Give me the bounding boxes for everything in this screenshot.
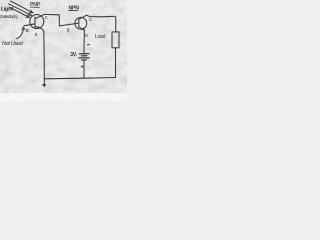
svg-text:B: B bbox=[67, 28, 70, 33]
svg-text:E: E bbox=[85, 33, 88, 38]
svg-text:Load: Load bbox=[95, 34, 106, 40]
wire Q2 emitter down to battery bbox=[83, 31, 85, 53]
svg-text:E: E bbox=[35, 32, 38, 37]
battery BT1 3V plates bbox=[79, 54, 89, 60]
bottom rail wire bbox=[44, 78, 115, 79]
PNP underline bbox=[30, 6, 40, 9]
svg-text:.........: ......... bbox=[100, 88, 110, 92]
battery polarity minus bbox=[87, 44, 90, 46]
Q2 base bar bbox=[78, 19, 80, 27]
Q2 emitter arrow (points outward, NPN) bbox=[82, 28, 85, 30]
arrow from "Not Used" to Q1 base bbox=[16, 28, 23, 39]
light rays into Q1 (light detector arrows) bbox=[9, 1, 34, 18]
svg-text:B: B bbox=[26, 28, 29, 33]
load resistor box bbox=[112, 32, 119, 48]
Q1 emitter lead bbox=[35, 26, 44, 31]
wire Q1 emitter down (left vertical) bbox=[43, 32, 46, 85]
Q1 base lead bbox=[24, 24, 35, 26]
svg-text:Light: Light bbox=[1, 7, 15, 13]
paper background bbox=[0, 0, 127, 101]
svg-text:+: + bbox=[80, 65, 84, 71]
Q1 base bar bbox=[34, 17, 36, 27]
Q2 body circle bbox=[75, 17, 87, 29]
NPN underline bbox=[69, 9, 79, 11]
Q1 body circle bbox=[30, 15, 44, 29]
svg-text:3V.: 3V. bbox=[70, 52, 77, 58]
Q2 emitter lead bbox=[79, 27, 85, 31]
transistor Q2 (NPN) bbox=[75, 15, 87, 30]
Q2 collector lead bbox=[79, 15, 87, 19]
wire load bottom to bottom rail bbox=[115, 48, 117, 78]
arrowhead at bottom of Q1 emitter wire bbox=[42, 84, 46, 87]
text annotations bbox=[0, 2, 110, 92]
Q1 emitter arrow (points toward base, PNP) bbox=[37, 27, 39, 29]
Q1 collector lead bbox=[35, 14, 44, 18]
transistor Q1 (PNP light detector) bbox=[24, 14, 44, 31]
wire battery bottom to bottom rail bbox=[83, 61, 85, 79]
wire Q2 collector to load (top rail) bbox=[87, 15, 116, 32]
svg-text:Not Used: Not Used bbox=[2, 41, 24, 47]
svg-text:Detector(s): Detector(s) bbox=[0, 14, 18, 19]
wire Q1 collector to Q2 base bbox=[44, 14, 79, 26]
